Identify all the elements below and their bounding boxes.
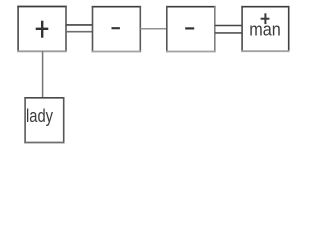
box B3 (-) bbox=[166, 6, 216, 52]
minus sign in B3 bbox=[185, 27, 194, 29]
double link B1-B2 bbox=[66, 25, 93, 32]
label "man" in B4 bbox=[249, 20, 281, 40]
plus sign in B4 bbox=[261, 13, 270, 24]
plus sign in B1 bbox=[36, 21, 49, 38]
box B1 (+) bbox=[17, 6, 66, 52]
minus sign in B2 bbox=[112, 27, 120, 29]
double link B3-B4 bbox=[215, 26, 242, 33]
box B4 (+ man) bbox=[241, 6, 289, 52]
single link B2-B3 bbox=[140, 28, 167, 30]
box B5 (lady) bbox=[24, 97, 64, 143]
vertical link B1-B5 bbox=[42, 51, 44, 98]
svg-text:lady: lady bbox=[26, 106, 53, 126]
box B2 (-) bbox=[92, 6, 141, 52]
label "lady" in B5 bbox=[26, 106, 53, 126]
svg-text:man: man bbox=[249, 20, 281, 40]
